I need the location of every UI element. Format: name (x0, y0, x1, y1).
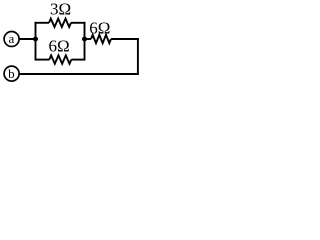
svg-text:a: a (9, 31, 15, 46)
wire series resistor to right corner (111, 38, 139, 40)
wire left rail (35, 22, 37, 61)
svg-text:3Ω: 3Ω (50, 0, 71, 18)
resistor 3ohm zigzag (49, 19, 71, 27)
resistor 6ohm (series) zigzag (91, 35, 111, 43)
wire bottom return to b (19, 73, 139, 75)
svg-text:b: b (8, 66, 15, 81)
node junction left (dot) (33, 37, 38, 42)
resistor 6ohm (parallel) zigzag (49, 55, 71, 63)
wire right rail (84, 22, 86, 61)
terminal b (4, 66, 19, 81)
svg-text:6Ω: 6Ω (49, 37, 70, 56)
svg-text:6Ω: 6Ω (89, 18, 110, 37)
wire bottom branch left (35, 59, 50, 61)
wire right junction to series resistor (85, 38, 92, 40)
wire top branch right (71, 22, 85, 24)
wire right vertical (137, 38, 139, 75)
node junction right (dot) (82, 37, 87, 42)
wire a to left rail (19, 38, 35, 40)
wire top branch left (35, 22, 49, 24)
wire bottom branch right (71, 59, 85, 61)
terminal a (4, 32, 19, 47)
